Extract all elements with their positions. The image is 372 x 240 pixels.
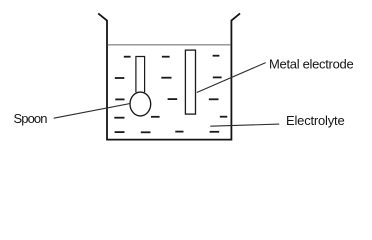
svg-text:Electrolyte: Electrolyte [286,113,345,128]
svg-text:Metal electrode: Metal electrode [269,57,353,72]
svg-text:Spoon: Spoon [14,111,48,126]
